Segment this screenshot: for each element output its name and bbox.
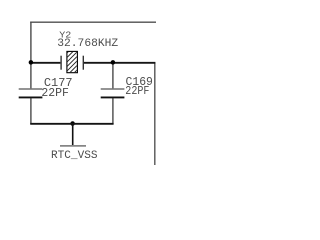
svg-text:32.768KHZ: 32.768KHZ [57, 38, 118, 50]
svg-text:22PF: 22PF [125, 85, 149, 98]
svg-text:22PF: 22PF [41, 87, 69, 100]
svg-text:RTC_VSS: RTC_VSS [51, 150, 98, 162]
